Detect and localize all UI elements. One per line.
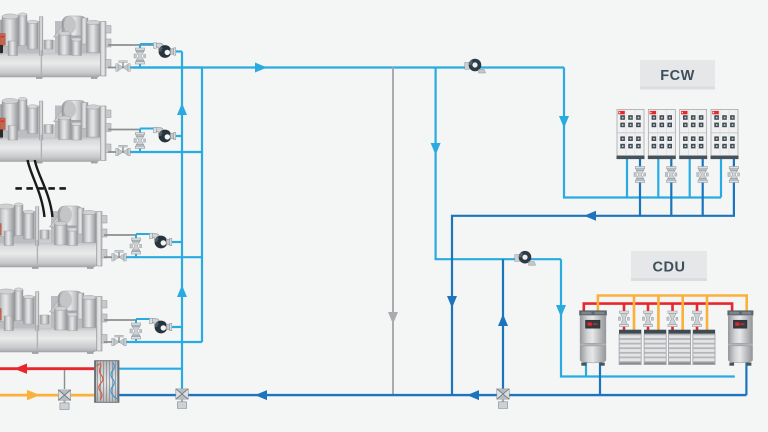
arrow FCW trunk down <box>559 116 569 128</box>
check valve CH-2 <box>134 133 146 149</box>
wire: CDU supply drop and header <box>561 259 735 376</box>
wire: FCW unit supply drops <box>627 159 721 198</box>
gate valve CH-4 <box>112 335 126 346</box>
CDU tank left <box>580 311 607 366</box>
arrow red left <box>14 364 27 374</box>
arrow bottom main left 1 <box>255 390 267 400</box>
pump P-6 on CDU branch <box>515 251 536 265</box>
motor valve on yellow line <box>58 370 70 410</box>
heat exchanger HX <box>95 361 119 403</box>
motor valve on makeup riser <box>497 389 509 409</box>
FCW unit 3 <box>679 109 707 159</box>
check valve FCW-1 <box>634 167 646 183</box>
gate valve CH-2 <box>116 145 130 156</box>
arrow yellow right <box>27 390 40 400</box>
wire: CH-3 evaporator pipe <box>104 256 126 258</box>
chiller CH-2 <box>0 97 111 163</box>
wire: CDU yellow drops <box>634 296 707 331</box>
dashed boundary line <box>15 187 66 190</box>
pump P-1 <box>154 43 176 58</box>
wire: CH-2 condenser pipe <box>108 129 140 131</box>
CDU valve 2 <box>642 311 653 327</box>
wire: makeup riser x503 <box>502 259 504 394</box>
label FCW <box>640 60 715 90</box>
wire: CH-4 evaporator pipe <box>104 341 126 343</box>
pump P-5 on supply main <box>465 59 486 73</box>
wire: FCW supply trunk down x564 <box>564 68 721 198</box>
arrow riser up 2 <box>177 285 187 297</box>
FCW unit 4 <box>711 109 739 159</box>
CDU manifold 2 <box>644 330 666 365</box>
pump P-2 <box>154 127 176 142</box>
check valve CH-3 <box>130 238 142 254</box>
label CDU <box>631 251 707 281</box>
FCW unit 1 <box>617 109 645 159</box>
gate valve CH-3 <box>112 250 126 261</box>
wire: red hot loop line to HX <box>0 367 95 370</box>
wire: CH-3 pump discharge <box>168 241 182 243</box>
wire: CDU red header <box>584 304 732 311</box>
wire: CDU yellow header <box>598 296 747 312</box>
CDU valve 1 <box>618 311 629 327</box>
wire: CH-4 condenser pipe <box>104 319 136 321</box>
check valve FCW-4 <box>728 167 740 183</box>
chiller CH-4 <box>0 288 107 354</box>
check valve CH-4 <box>130 323 142 339</box>
wire: supply riser x182 <box>181 52 183 395</box>
CDU valve 4 <box>691 311 702 327</box>
wire: CDU right tank blue drop <box>745 362 747 395</box>
arrow supply main right <box>255 63 267 73</box>
wire: FCW unit return drops <box>640 159 703 216</box>
wire: CDU red drops <box>624 304 697 330</box>
arrow riser up 1 <box>177 103 187 115</box>
wire: CDU branch down x435.6 <box>436 68 561 260</box>
wire: bottom return main (dark blue) <box>119 394 746 396</box>
svg-text:FCW: FCW <box>660 68 695 84</box>
wire: CH-4 pump discharge <box>168 326 182 328</box>
pump P-4 <box>150 318 172 333</box>
check valve FCW-2 <box>665 167 677 183</box>
wire: CH-3 condenser pipe <box>104 234 136 236</box>
chiller CH-3 <box>0 203 107 269</box>
check valve FCW-3 <box>697 167 709 183</box>
wire: CH-2 evaporator pipe <box>108 151 130 153</box>
wire: return riser x202 <box>201 68 203 343</box>
arrow bottom main left 2 <box>467 390 479 400</box>
wire: FCW return header <box>452 159 734 394</box>
wire: CH-1 pump discharge <box>172 50 182 52</box>
arrow CDU branch down <box>431 143 441 155</box>
pump P-3 <box>150 233 172 248</box>
wire: grey bypass line x393 <box>392 68 394 395</box>
wire: CDU left tank blue drop <box>599 362 601 395</box>
wire: CH-1 condenser pipe <box>108 45 155 68</box>
wire: CH-1 evaporator pipe <box>108 67 130 69</box>
CDU manifold 4 <box>693 330 715 365</box>
CDU manifold 1 <box>619 330 641 365</box>
wire: chilled water supply main (top, cyan) <box>133 66 564 68</box>
arrow grey down <box>388 312 398 324</box>
svg-text:CDU: CDU <box>653 260 686 276</box>
gate valve CH-1 <box>116 61 130 72</box>
check valve CH-1 <box>134 48 146 64</box>
CDU tank right <box>728 311 753 366</box>
arrow FCW return left <box>584 211 596 221</box>
motor valve on riser at bottom main <box>176 389 188 409</box>
wire: yellow warm loop line to HX <box>0 394 95 397</box>
arrow makeup up <box>498 314 508 326</box>
chiller CH-1 <box>0 13 111 79</box>
wire: CH-2 pump discharge <box>172 135 182 137</box>
FCW unit 2 <box>648 109 676 159</box>
arrow return drop down <box>447 296 457 308</box>
CDU valve 3 <box>667 311 678 327</box>
CDU manifold 3 <box>668 330 690 365</box>
wire: HX cyan outlet to riser <box>119 368 182 370</box>
arrow CDU drop down <box>556 305 566 317</box>
wire: CDU left tank cyan drop <box>585 362 587 377</box>
power cables chiller 2 to 3 <box>28 160 45 217</box>
